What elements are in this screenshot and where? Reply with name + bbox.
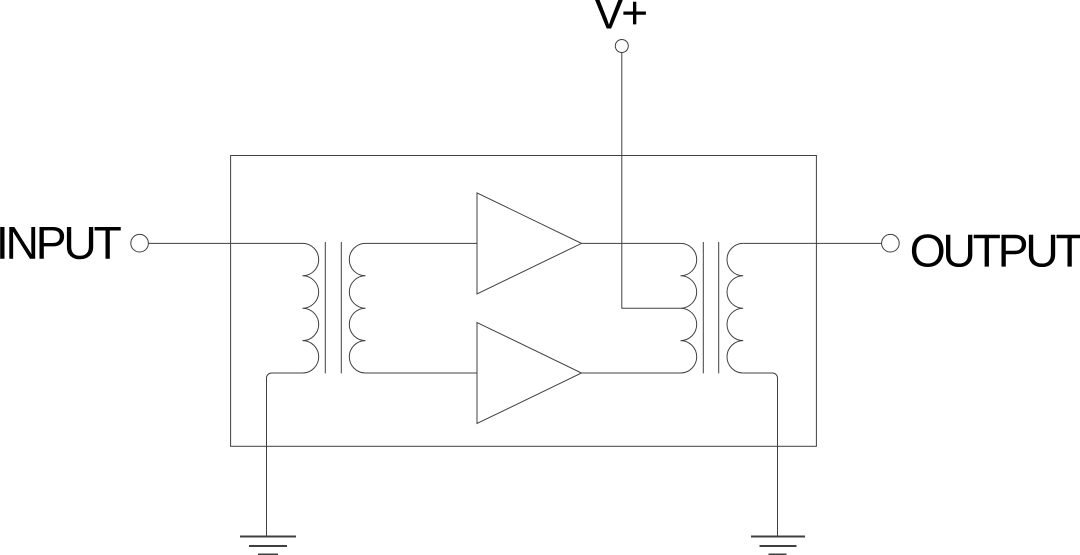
node INPUT label	[0, 227, 121, 259]
wire T2 secondary to OUTPUT	[743, 242, 881, 244]
wire T1 primary to ground	[267, 373, 303, 536]
OUTPUT terminal circle	[882, 234, 900, 252]
ground (right)	[751, 537, 805, 555]
V+ terminal circle	[615, 40, 628, 53]
wire V+ to center tap of T2 primary	[622, 53, 681, 309]
enclosure box	[231, 156, 817, 447]
INPUT terminal circle	[131, 234, 149, 252]
node OUTPUT label	[912, 234, 1080, 267]
wire T2 secondary to ground	[743, 373, 777, 536]
amplifier A1 (upper)	[477, 193, 582, 294]
wire T1 secondary to A1 input	[366, 242, 478, 244]
transformer T1 core	[325, 242, 341, 373]
transformer T2 core	[703, 242, 718, 373]
amplifier A2 (lower)	[477, 323, 582, 424]
wire A2 output to T2 primary	[582, 372, 681, 374]
transformer T1 secondary winding	[349, 243, 365, 373]
wire A1 output to T2 primary	[582, 242, 681, 244]
ground (left)	[240, 537, 296, 555]
transformer T2 secondary winding	[727, 243, 743, 373]
node V+ label	[594, 0, 646, 29]
transformer T2 primary winding	[681, 243, 697, 373]
wire T1 secondary to A2 input	[366, 372, 478, 374]
transformer T1 primary winding	[303, 243, 319, 373]
wire INPUT to T1 primary	[148, 242, 302, 244]
